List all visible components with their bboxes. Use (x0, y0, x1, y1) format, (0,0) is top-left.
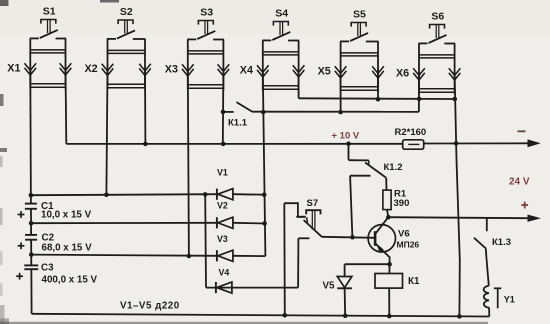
wire left rail segment (C2 to C3) (30, 240, 32, 266)
junction dot base node (350, 235, 355, 240)
wire V2 row right (233, 222, 265, 225)
junction dot bus1/S6 left leg (417, 97, 422, 102)
wire left rail segment (S1 left leg to C1) (29, 70, 32, 204)
wire K1.3 to Y1 coil (486, 249, 489, 286)
wire bottom rail (32, 314, 490, 317)
wire left rail segment (C1 to C2) (30, 209, 32, 235)
wire K1.2 blade to R1 (385, 178, 387, 190)
junction dot V1 row/S2 left leg (104, 193, 109, 198)
junction dot bus2/S5 left leg (338, 110, 343, 115)
junction dot collector node (386, 215, 391, 220)
svg-text:V5: V5 (323, 281, 336, 292)
svg-text:S1: S1 (43, 6, 56, 18)
wire S2 left leg down to V1 row (106, 70, 107, 195)
junction dot bottom rail/S7 ground (283, 313, 288, 318)
svg-text:V2: V2 (217, 201, 228, 211)
wire S1 right leg down to +10V rail corner (65, 70, 68, 144)
svg-text:МП26: МП26 (397, 240, 420, 250)
svg-text:V3: V3 (217, 234, 228, 244)
relay contact K1.2 (348, 144, 350, 160)
capacitor C3 (24, 264, 38, 266)
wire bus1 (S4-S5-S6 right legs) (299, 97, 455, 100)
label plus polarity (521, 204, 528, 206)
solenoid coil Y1 (484, 286, 489, 308)
capacitor C1 (25, 203, 37, 205)
junction dot bus1/S6 right leg (453, 97, 458, 102)
svg-text:+ 10 V: + 10 V (332, 131, 360, 142)
junction dot V3 row/left rail (29, 252, 34, 257)
wire V2 row (31, 222, 217, 224)
svg-text:Y1: Y1 (504, 295, 515, 305)
svg-text:S7: S7 (307, 198, 319, 209)
wire S6 left leg down to bus2 corner (418, 72, 420, 112)
wire left rail segment (C3 to bottom rail) (30, 269, 32, 314)
junction dot rail/S3 right leg (221, 142, 226, 147)
polarity + of C1 (18, 214, 25, 216)
svg-text:S5: S5 (353, 9, 366, 21)
svg-text:К1.1: К1.1 (228, 117, 248, 128)
wire S5 right leg down to bus1 (377, 70, 379, 99)
junction dot K1/bottom rail (387, 314, 392, 319)
svg-text:C3: C3 (41, 263, 54, 274)
svg-text:S6: S6 (431, 11, 444, 23)
junction dot V1 row/V4 riser top (203, 192, 208, 197)
svg-text:S3: S3 (200, 7, 213, 19)
svg-text:S4: S4 (275, 8, 288, 20)
polarity + of C2 (18, 245, 25, 247)
junction dot V5/bottom rail (343, 314, 348, 319)
svg-text:К1: К1 (408, 276, 420, 287)
wire V1 row (31, 194, 217, 195)
svg-text:X3: X3 (165, 64, 178, 76)
wire S7 feed from ground rail (284, 203, 305, 217)
svg-text:X5: X5 (318, 66, 331, 78)
junction dot emitter node (387, 262, 392, 267)
svg-text:400,0 x 15 V: 400,0 x 15 V (42, 275, 98, 286)
wire S6 right leg down to bottom rail (455, 72, 460, 316)
svg-text:24 V: 24 V (509, 177, 530, 188)
wire base node (322, 237, 375, 238)
wire bus2 (K1.1 to S6 left leg) (252, 111, 419, 113)
svg-text:К1.3: К1.3 (492, 237, 511, 248)
resistor R2 box (403, 140, 424, 149)
pushbutton S7 (306, 210, 320, 214)
junction dot rail/S2 right leg (143, 142, 148, 147)
wire V5 bottom to rail (344, 288, 347, 316)
junction dot bus1/S5 right leg (376, 97, 381, 102)
svg-text:X6: X6 (396, 68, 409, 80)
wire R1 bottom to collector node (387, 210, 388, 218)
svg-text:V1: V1 (217, 168, 228, 178)
svg-text:К1.2: К1.2 (384, 162, 403, 173)
transistor V6 (МП26) (368, 225, 395, 252)
scan edge artifacts (0, 0, 9, 6)
arrowhead 24V output (528, 215, 542, 222)
wire Y1 to bottom rail corner (488, 308, 490, 317)
wire 24V output (388, 217, 529, 218)
svg-text:R2*160: R2*160 (395, 127, 427, 138)
wire V3 row (31, 255, 217, 256)
wire S4 left leg down to V3 row corner (263, 72, 266, 256)
diode V1 (216, 189, 218, 200)
wire S4 right leg down to bus1 corner (298, 70, 300, 98)
solenoid Y1 core mark (494, 287, 502, 289)
capacitor C2 (25, 234, 37, 236)
junction dot V2/S4 leg (262, 221, 267, 226)
junction dot V1/S4 leg (262, 192, 267, 197)
svg-text:68,0 x 15 V: 68,0 x 15 V (42, 243, 93, 254)
wire K1.2 lower terminal to base node (350, 176, 352, 238)
diode V5 (vertical, pointing down) (337, 277, 352, 288)
wire V4 output stub (298, 237, 309, 239)
svg-text:X1: X1 (7, 63, 20, 75)
wire S3 left leg down to V3 row (188, 70, 189, 256)
wire V4 left riser (204, 194, 207, 287)
wire +10V rail (left part) (66, 143, 402, 145)
svg-text:V4: V4 (219, 267, 230, 277)
wire S2 right leg down to +10V rail (144, 70, 146, 144)
label minus polarity (518, 130, 526, 132)
wire +10V rail (right part) (424, 142, 531, 144)
diode V2 (216, 217, 218, 228)
wire S7 ground vertical (283, 203, 286, 315)
polarity + of C3 (16, 275, 23, 277)
relay coil K1 box (375, 274, 403, 289)
wire V5 top (344, 264, 346, 276)
relay contact K1.3 (486, 218, 488, 231)
svg-text:390: 390 (394, 198, 410, 209)
svg-text:V6: V6 (398, 229, 410, 240)
junction dot V1 row/left rail (29, 193, 34, 198)
wire S3 right leg down through K1.1 to +10V rail (222, 70, 225, 144)
wire V1 row right (233, 193, 265, 196)
wire K1 coil to bottom rail (388, 288, 390, 316)
junction dot rail/+10V node (346, 141, 351, 146)
wire emitter node branch (345, 263, 390, 265)
svg-text:S2: S2 (120, 6, 133, 18)
wire V4 riser (297, 238, 299, 287)
svg-text:10,0 x 15 V: 10,0 x 15 V (41, 210, 92, 221)
junction dot V2 row/left rail (29, 221, 34, 226)
svg-text:X2: X2 (84, 63, 97, 75)
wire V3 row right (233, 255, 265, 257)
arrowhead +10V rail output (528, 139, 541, 147)
svg-text:V1–V5 д220: V1–V5 д220 (120, 301, 180, 312)
junction dot V3 row/S3 left leg (187, 254, 192, 259)
diode V3 (216, 250, 218, 261)
diode V4 (215, 282, 217, 293)
junction dot bus2/S4 left leg (261, 110, 266, 115)
wire emitter to K1 coil (388, 258, 390, 274)
relay contact K1.1 (221, 110, 226, 115)
resistor R1 box (383, 190, 391, 210)
wire S5 left leg down to bus2 (340, 70, 342, 112)
wire V4 row (206, 287, 298, 289)
junction dot rail/S6 right leg (454, 141, 459, 146)
svg-text:X4: X4 (240, 65, 253, 77)
junction dot bottom rail/S6 right leg (457, 314, 462, 319)
